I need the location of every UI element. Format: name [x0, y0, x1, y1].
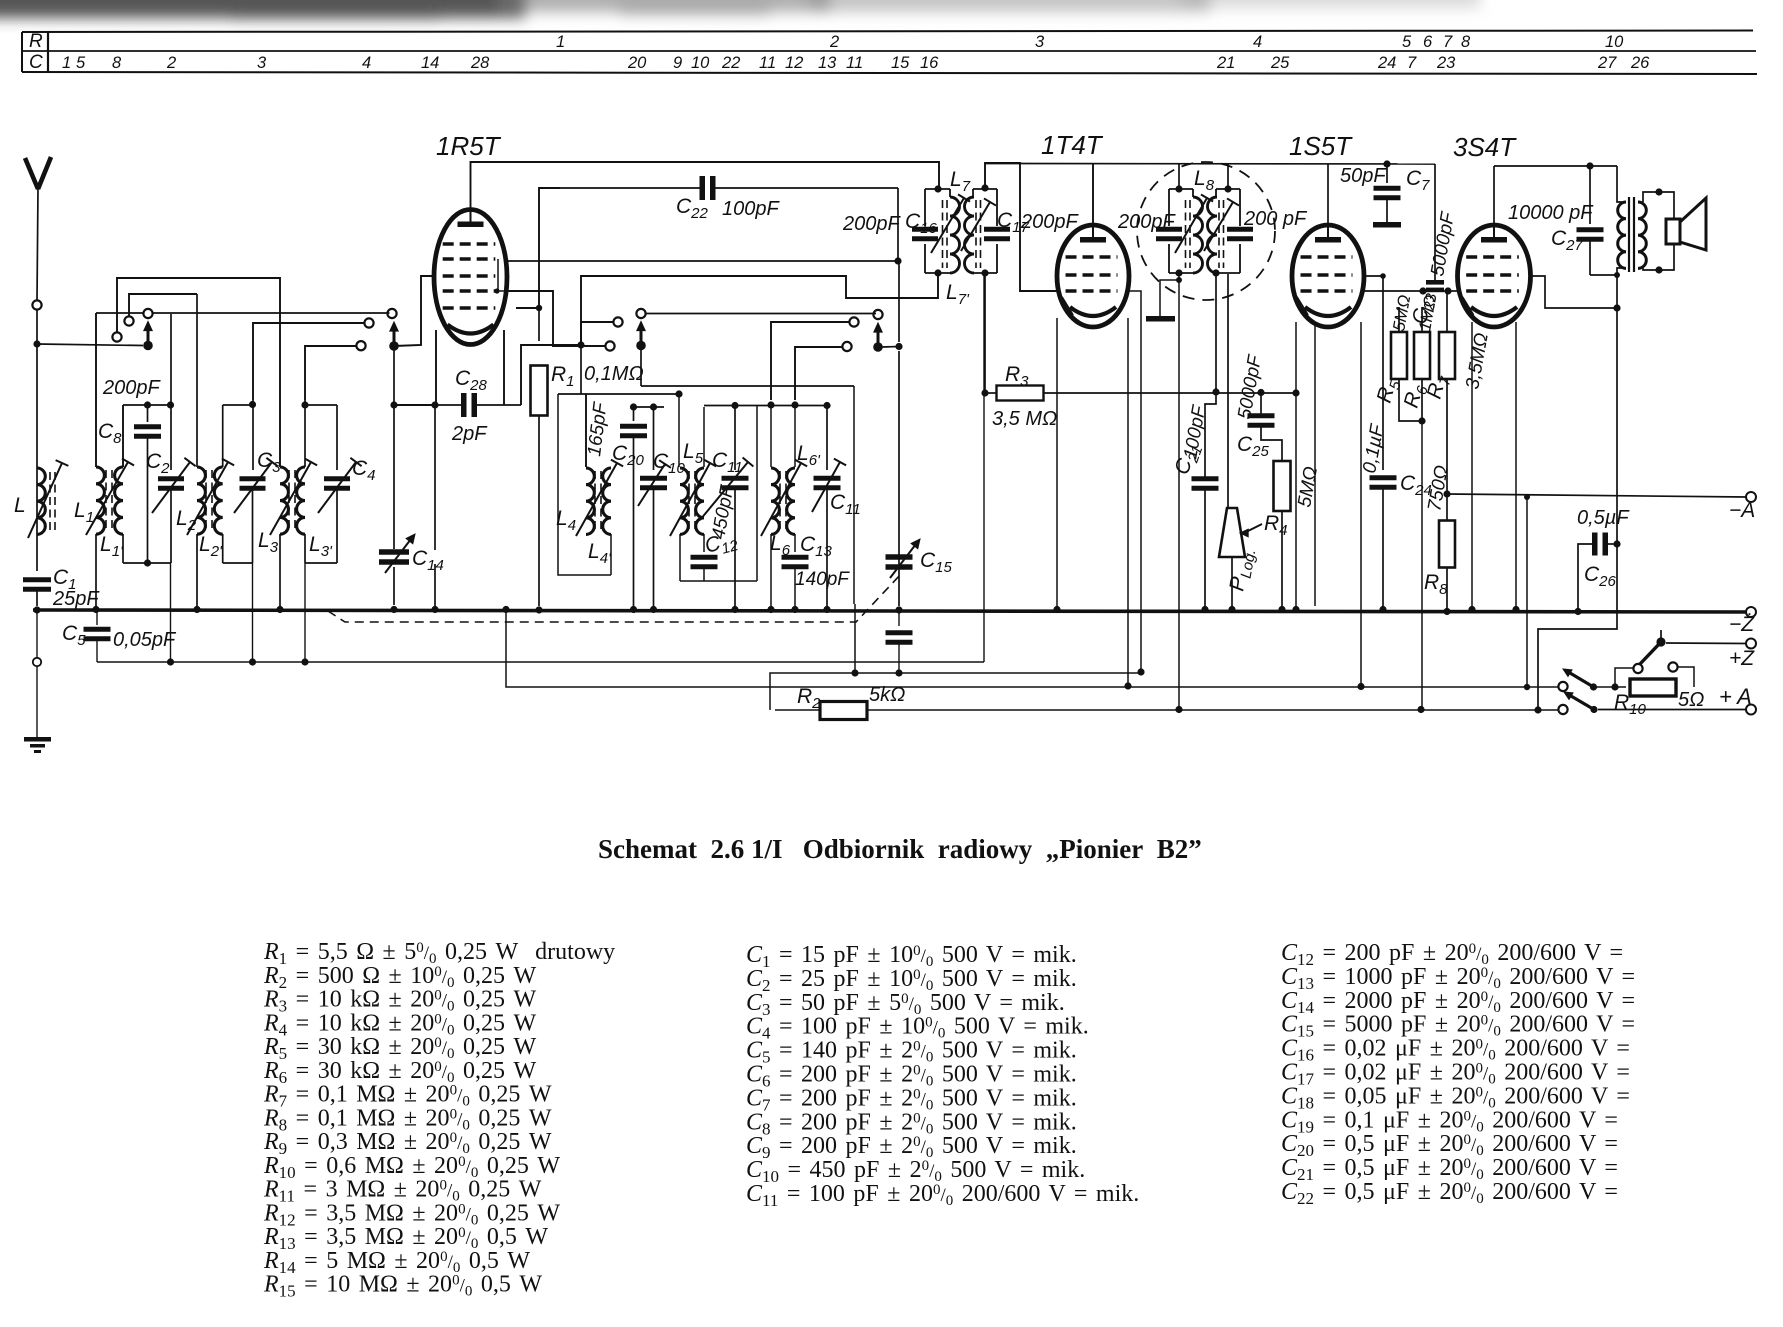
- wire bus to ground break: [33, 606, 40, 613]
- wire R3 line: [985, 392, 996, 394]
- svg-text:140pF: 140pF: [795, 569, 850, 590]
- wire S1 contact1 riser: [117, 278, 280, 467]
- svg-text:200pF: 200pF: [102, 377, 161, 399]
- wire antenna to band switch S1: [37, 344, 143, 346]
- svg-text:23: 23: [1436, 54, 1456, 72]
- capacitor C23: [1434, 164, 1436, 280]
- wire module1 bottom: [122, 534, 124, 563]
- inductor L5prime: [696, 468, 704, 534]
- wire C2 column: [170, 314, 172, 405]
- speaker loop: [1643, 192, 1674, 219]
- wire 1R5T plate top: [471, 162, 940, 210]
- wire pot column: [1227, 274, 1229, 508]
- svg-text:27: 27: [1597, 54, 1617, 72]
- switch S2a wiper: [389, 341, 399, 351]
- wire +A line: [1598, 709, 1746, 711]
- wire L8 left bottom ground: [1160, 273, 1179, 316]
- core L3: [288, 470, 290, 531]
- svg-text:10: 10: [1605, 33, 1624, 51]
- resistor R12 5M: [1274, 461, 1291, 511]
- wire L8 top left riser: [1178, 164, 1180, 189]
- svg-text:L: L: [14, 494, 26, 517]
- wire grid2 line to L7: [507, 260, 898, 262]
- node C17 bottom: [981, 269, 988, 276]
- wire L5 top: [678, 394, 680, 467]
- svg-text:12: 12: [785, 54, 803, 72]
- svg-text:2: 2: [829, 33, 839, 51]
- wire S2b wiper down: [640, 350, 642, 386]
- capacitor C27: [1589, 166, 1591, 224]
- capacitor C5: [96, 612, 98, 625]
- tube V3 1S5T: [1292, 225, 1364, 327]
- resistor R3: [997, 386, 1044, 401]
- wire S2b contact2 drop: [581, 322, 614, 345]
- wire C4 column: [336, 405, 338, 470]
- inductor L2prime: [214, 467, 222, 534]
- wire module3 to lower rail: [304, 563, 306, 662]
- svg-text:28: 28: [470, 54, 490, 72]
- terminal -Z: [1746, 607, 1756, 617]
- node L8 top left: [1175, 185, 1182, 192]
- wire L8 right bottom drop: [1215, 273, 1217, 392]
- tube V4 3S4T: [1458, 225, 1531, 327]
- svg-text:0,5µF: 0,5µF: [1577, 507, 1630, 529]
- capacitor C18 below bus: [898, 612, 900, 626]
- svg-text:C22 = 0,5 μF ± 200/0 200/600 V: C22 = 0,5 μF ± 200/0 200/600 V =: [1281, 1179, 1618, 1208]
- ground: [24, 737, 51, 742]
- svg-text:6: 6: [1423, 33, 1433, 51]
- wire to ground: [36, 666, 38, 737]
- svg-text:22: 22: [721, 54, 740, 72]
- tube V2 1T4T: [1057, 225, 1129, 327]
- wire x1527 drop: [1526, 497, 1528, 687]
- wire L4 frame: [585, 394, 587, 467]
- capacitor C4 variable: [324, 476, 350, 481]
- wire lower rail horizontal: [97, 661, 984, 663]
- core L4: [594, 471, 596, 532]
- wire S2 wiper to tube grid: [394, 276, 434, 346]
- svg-text:200pF: 200pF: [1020, 211, 1079, 233]
- resistor R1: [538, 308, 540, 341]
- wire L8 top right riser: [1227, 164, 1229, 189]
- svg-text:−Ż: −Ż: [1729, 613, 1755, 636]
- inductor L3prime: [297, 467, 305, 534]
- svg-text:4: 4: [1253, 33, 1262, 51]
- inductor L1: [96, 467, 104, 534]
- inductor L4: [586, 468, 594, 534]
- svg-text:Schemat 2.6 1/I Odbiornik: Schemat 2.6 1/I Odbiornik radiowy „Pioni…: [598, 834, 1202, 864]
- svg-text:0,05pF: 0,05pF: [113, 629, 177, 651]
- potentiometer P log: [1219, 508, 1245, 557]
- resistor R8: [1446, 494, 1448, 520]
- svg-text:5Ω: 5Ω: [1678, 689, 1704, 711]
- svg-text:3: 3: [257, 54, 267, 72]
- wire module1 to lower rail: [170, 563, 172, 662]
- wire S2 wiper down: [393, 350, 395, 405]
- svg-text:1R5T: 1R5T: [436, 131, 502, 161]
- svg-text:7: 7: [1407, 54, 1417, 72]
- wire +Z line: [1666, 642, 1746, 645]
- wire top rail y164: [985, 163, 1435, 166]
- inductor L3 adjust arrow: [270, 462, 311, 535]
- IF transformer L8 assembly: [1169, 188, 1193, 190]
- switch S3a wiper: [873, 342, 883, 352]
- output transformer primary: [1617, 166, 1626, 202]
- svg-text:8: 8: [112, 54, 122, 72]
- wire shield box top: [641, 385, 854, 387]
- tube V1 1R5T: [434, 210, 507, 345]
- ground bus: [33, 610, 1752, 612]
- node antenna tap: [32, 300, 41, 309]
- wire 3S4T grid: [1448, 290, 1458, 292]
- inductor L6prime: [787, 468, 795, 534]
- svg-text:1S5T: 1S5T: [1289, 131, 1353, 161]
- capacitor C11b variable: [826, 405, 828, 470]
- wire C3 column: [252, 400, 254, 470]
- wire 1R5T bottom box: [392, 330, 436, 405]
- wire 3S4T bottom box: [1471, 322, 1473, 606]
- inductor L4 adjust arrow: [576, 463, 617, 536]
- capacitor C24: [1370, 475, 1397, 480]
- wire L1 bottom to bus: [95, 534, 97, 606]
- potentiometer wiper arrow R4: [1240, 529, 1248, 537]
- svg-text:20: 20: [627, 54, 647, 72]
- svg-text:3S4T: 3S4T: [1453, 132, 1517, 162]
- wire pot bottom: [1231, 557, 1233, 606]
- svg-text:100pF: 100pF: [722, 198, 780, 220]
- capacitor C26: [1592, 533, 1598, 556]
- svg-text:0,1MΩ: 0,1MΩ: [584, 363, 644, 385]
- wire x1617 down: [1616, 308, 1618, 544]
- wire 1R5T grid2 internal: [498, 259, 507, 291]
- wire blade stub: [1660, 630, 1662, 641]
- capacitor C22: [539, 187, 701, 189]
- wire C14 column: [394, 404, 435, 406]
- svg-text:3,5 MΩ: 3,5 MΩ: [992, 408, 1057, 430]
- wire 1T4T bottom box: [1056, 318, 1058, 606]
- speaker: [1666, 219, 1680, 244]
- filament switch contact lower: [1558, 705, 1567, 714]
- switch S1a wiper: [143, 341, 153, 351]
- wire L3 bottom to bus: [279, 534, 281, 606]
- wire R10 loop: [1615, 668, 1633, 687]
- svg-text:11: 11: [759, 54, 776, 72]
- capacitor C1: [23, 577, 51, 582]
- IF transformer L8 dashed can: [1137, 162, 1275, 300]
- wire module2 to lower rail: [252, 563, 254, 662]
- svg-text:7: 7: [1443, 33, 1453, 51]
- svg-text:8: 8: [1461, 33, 1471, 51]
- inductor L: [37, 468, 45, 534]
- svg-text:5kΩ: 5kΩ: [869, 684, 905, 706]
- wire C17 top riser: [985, 163, 1058, 291]
- svg-text:1T4T: 1T4T: [1041, 130, 1104, 160]
- inductor L5: [680, 468, 688, 534]
- wire module2 bottom: [222, 534, 224, 563]
- wire S1 contact2 riser: [129, 294, 197, 317]
- svg-text:+ A: + A: [1719, 684, 1752, 709]
- output transformer secondary: [1638, 202, 1646, 268]
- svg-text:25pF: 25pF: [52, 588, 100, 610]
- wire mid rail y405: [704, 405, 827, 407]
- wire S2 contact2 drop: [253, 323, 365, 400]
- wire S1 contact3 to S2 contact3: [153, 312, 390, 314]
- wire S2 contact1 drop: [305, 346, 357, 400]
- wire L1prime top: [122, 405, 124, 467]
- switch S2b wiper: [636, 341, 646, 351]
- svg-text:50pF: 50pF: [1340, 165, 1387, 187]
- wire 1R5T screen to C22: [516, 188, 560, 308]
- wire antenna down: [36, 310, 38, 345]
- inductor L3: [280, 467, 288, 534]
- capacitor C3 variable: [240, 476, 266, 481]
- terminal +A: [1746, 705, 1756, 715]
- wire +A rail y710: [775, 709, 820, 711]
- core L2: [205, 470, 207, 531]
- wire 1T4T top: [1092, 164, 1094, 225]
- wire 1S5T bottom box: [1295, 322, 1297, 606]
- capacitor C28: [461, 393, 467, 417]
- wire osc grid riser: [581, 273, 938, 345]
- wire S3 contact2 drop: [771, 322, 851, 400]
- resistor R10: [1630, 679, 1676, 696]
- capacitor C15 variable: [886, 554, 913, 560]
- wire L3prime top pair: [304, 400, 306, 467]
- capacitor C8: [147, 405, 149, 422]
- svg-text:5: 5: [1402, 33, 1412, 51]
- wire S3 wiper junction: [895, 343, 902, 350]
- capacitor C10 variable: [653, 407, 655, 470]
- node L8 bottom right: [1212, 269, 1219, 276]
- wire S2b contact1 drop: [507, 291, 607, 346]
- svg-text:16: 16: [920, 54, 939, 72]
- wire x1361 drop: [1360, 322, 1362, 687]
- svg-text:1: 1: [62, 54, 71, 72]
- wire 3S4T plate right: [1530, 276, 1617, 308]
- node blade contact: [1633, 664, 1642, 673]
- core L1: [105, 470, 107, 531]
- wire module6 lower: [854, 604, 856, 673]
- svg-text:25: 25: [1270, 54, 1290, 72]
- inductor L1 adjust arrow: [86, 462, 128, 535]
- wire S3 wiper column: [898, 261, 900, 342]
- wire L5prime bottom C12: [703, 534, 705, 552]
- svg-text:2pF: 2pF: [451, 423, 488, 445]
- svg-text:14: 14: [421, 54, 439, 72]
- capacitor C13: [794, 534, 796, 552]
- capacitor C25: [1260, 392, 1262, 414]
- node C17 top: [981, 184, 988, 191]
- inductor L4prime: [603, 468, 611, 534]
- svg-text:200 pF: 200 pF: [1243, 208, 1308, 230]
- capacitor C14 variable: [379, 549, 409, 555]
- wire -A line: [1447, 494, 1746, 497]
- terminal -A: [1746, 492, 1756, 502]
- svg-text:26: 26: [1630, 54, 1650, 72]
- node L7 top: [934, 185, 941, 192]
- inductor L6 adjust arrow: [761, 463, 801, 536]
- wire x1421 drop: [1421, 421, 1423, 709]
- svg-text:15: 15: [891, 54, 910, 72]
- svg-text:200pF: 200pF: [842, 213, 901, 235]
- gang dashed link: [328, 574, 901, 622]
- resistor R5: [1391, 332, 1407, 379]
- svg-text:3: 3: [1035, 33, 1045, 51]
- core L5: [688, 471, 690, 532]
- svg-text:2: 2: [166, 54, 176, 72]
- node R10 bypass contact: [1668, 662, 1677, 671]
- node L7 bottom: [934, 269, 941, 276]
- inductor L adjust arrow: [28, 463, 62, 538]
- inductor L1prime: [115, 467, 123, 534]
- wire grid2 y291 to C23: [1364, 290, 1448, 292]
- wire C17 bottom drop: [984, 273, 986, 393]
- wire S3 contact1 drop: [795, 347, 844, 400]
- wire L2prime top pair: [222, 405, 224, 467]
- svg-text:+Ż: +Ż: [1729, 647, 1755, 670]
- IF transformer L7 assembly: [925, 188, 950, 190]
- floating ground bar: [1146, 316, 1175, 322]
- svg-text:4: 4: [362, 54, 371, 72]
- wire +batt rail y687: [506, 610, 1559, 687]
- decorative top scan smudge: [0, 0, 1480, 20]
- wire 1S5T top: [1327, 164, 1329, 225]
- wire 3S4T top: [1493, 166, 1495, 225]
- antenna: [25, 158, 38, 189]
- svg-text:9: 9: [673, 54, 682, 72]
- capacitor C11a variable: [734, 405, 736, 470]
- wire 1S5T plate to C24 column: [1364, 276, 1383, 470]
- inductor L6: [771, 468, 779, 534]
- wire pair line module1: [123, 404, 171, 406]
- ruler table frame: [22, 31, 1753, 33]
- switch power blade: [1656, 637, 1665, 646]
- svg-text:R: R: [29, 31, 43, 52]
- inductor L2 adjust arrow: [187, 462, 228, 535]
- svg-text:C: C: [29, 52, 43, 73]
- wire C22 right drop: [897, 188, 899, 261]
- inductor L5 adjust arrow: [670, 463, 710, 536]
- svg-text:10000 pF: 10000 pF: [1508, 202, 1594, 224]
- resistor R7: [1439, 332, 1455, 379]
- svg-text:11: 11: [846, 54, 863, 72]
- wire grid line x581: [580, 322, 582, 394]
- wire front box top: [96, 312, 144, 314]
- wire S2b contact3 line: [646, 313, 877, 315]
- svg-text:21: 21: [1216, 54, 1235, 72]
- filament switch contact upper: [1558, 682, 1567, 691]
- svg-text:24: 24: [1377, 54, 1396, 72]
- capacitor C21: [1205, 392, 1216, 477]
- wire mid rail y405 module4: [633, 406, 664, 408]
- wire L4prime bottom: [610, 534, 612, 575]
- wire module3 bottom: [304, 534, 306, 563]
- svg-text:5: 5: [76, 54, 86, 72]
- wire module6 frame: [770, 534, 772, 606]
- wire 1T4T cathode right: [1125, 291, 1141, 672]
- capacitor C20: [633, 407, 635, 421]
- svg-text:C11 = 100 pF ± 200/0 200/600 V: C11 = 100 pF ± 200/0 200/600 V = mik.: [746, 1181, 1139, 1210]
- node ground break: [33, 658, 41, 666]
- core L6: [779, 471, 781, 532]
- svg-text:−A: −A: [1729, 499, 1755, 522]
- node L8 bottom left: [1175, 269, 1182, 276]
- svg-text:10: 10: [691, 54, 710, 72]
- wire rail y673: [770, 673, 1141, 710]
- wire L1 top: [95, 313, 97, 467]
- svg-text:R15 = 10 MΩ ± 200/0 0,5 W: R15 = 10 MΩ ± 200/0 0,5 W: [263, 1272, 542, 1301]
- svg-text:1: 1: [556, 33, 565, 51]
- capacitor C7: [1383, 160, 1390, 167]
- svg-text:200pF: 200pF: [1117, 211, 1176, 233]
- terminal +Z: [1746, 639, 1756, 649]
- node L8 top right: [1224, 185, 1231, 192]
- svg-text:13: 13: [818, 54, 837, 72]
- output transformer core: [1628, 197, 1630, 272]
- inductor L2: [197, 467, 205, 534]
- wire 01M line: [558, 393, 679, 395]
- capacitor C2 variable: [158, 476, 184, 481]
- wire L2 bottom to bus: [196, 534, 198, 606]
- resistor R6: [1414, 332, 1430, 379]
- resistor R2: [820, 702, 867, 720]
